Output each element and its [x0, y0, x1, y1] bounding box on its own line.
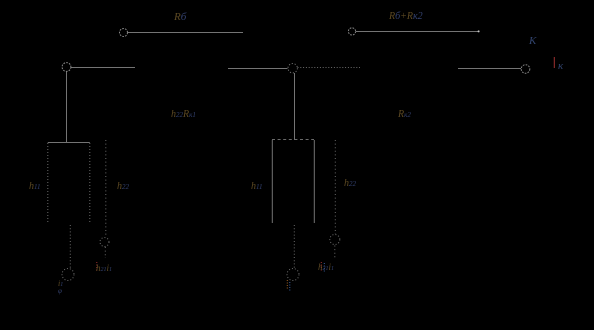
svg-text:Rк2: Rк2	[397, 109, 411, 120]
svg-text:К: К	[528, 35, 537, 47]
svg-text:h11: h11	[251, 181, 262, 192]
svg-text:h22Rк1: h22Rк1	[171, 109, 196, 120]
svg-text:Rб: Rб	[173, 11, 187, 23]
svg-text:h22: h22	[117, 181, 130, 192]
svg-text:h11: h11	[29, 181, 40, 192]
svg-text:h22: h22	[344, 178, 357, 189]
svg-text:φ: φ	[58, 287, 62, 295]
svg-text:Rб+Rк2: Rб+Rк2	[388, 11, 423, 22]
svg-text:к: к	[558, 60, 564, 72]
